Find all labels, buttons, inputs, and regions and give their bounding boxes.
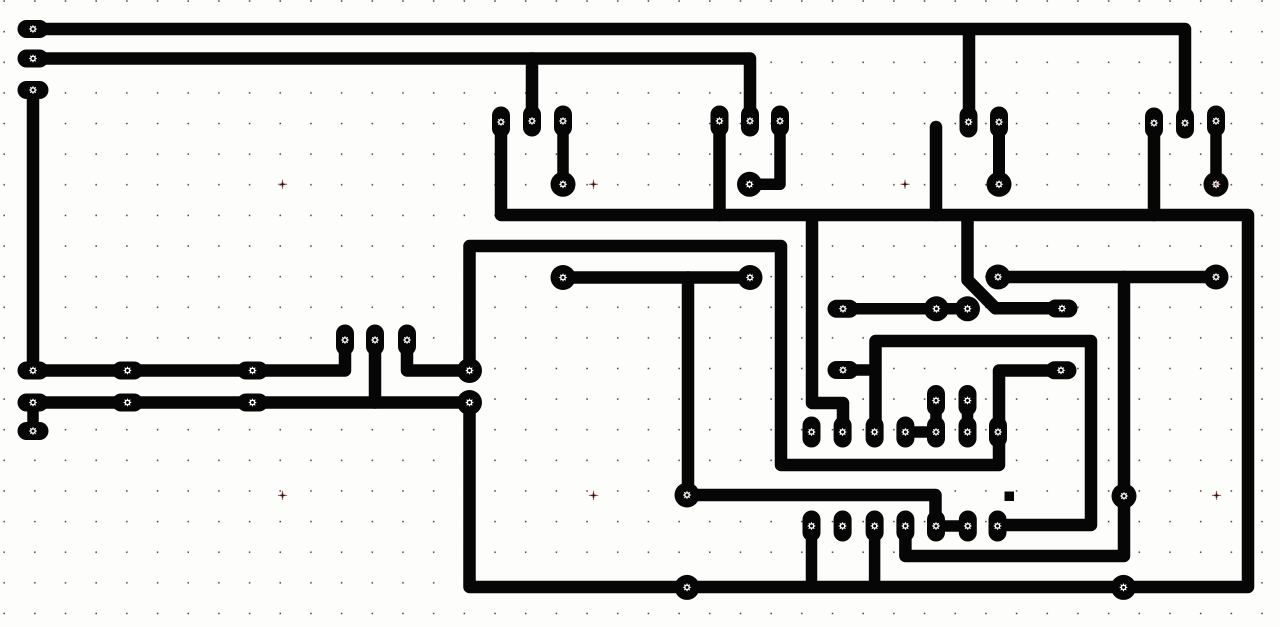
wire net5 stub from pad P15 bbox=[1148, 129, 1161, 215]
wire net6: jog from outer loop to pad P39 bbox=[812, 221, 843, 426]
pad P9 (vertical) bbox=[741, 106, 759, 137]
pad P15 (vertical) bbox=[1145, 108, 1163, 139]
pad P46b (vertical) bbox=[927, 417, 945, 448]
wire link pad P53 down bbox=[930, 401, 942, 433]
pad P32 (round) bbox=[987, 172, 1012, 197]
wire stub pad P55 to bottom rail bbox=[806, 526, 818, 587]
fiducial cross F6 bbox=[901, 491, 910, 500]
wire net5: big outer loop pad P29 to pad P6 bbox=[470, 128, 1249, 587]
pad P29 (round) bbox=[457, 390, 482, 415]
pad P25 (vertical) bbox=[398, 325, 416, 356]
pad P37 (round) bbox=[986, 265, 1011, 290]
pad P49 (vertical) bbox=[989, 511, 1007, 542]
wire net9 drop through pad P51 to pad P46 bbox=[905, 277, 1124, 556]
pad P60 (round) bbox=[675, 575, 700, 600]
pad P39 (vertical) bbox=[834, 417, 852, 448]
wire net10: pads P40-P41-P42 link bbox=[843, 303, 968, 315]
pad P22 (horizontal) bbox=[237, 394, 268, 412]
pad P56 (vertical) bbox=[834, 511, 852, 542]
wire net1 drop to pad P13 bbox=[963, 35, 976, 115]
pad P5 (vertical) bbox=[554, 106, 572, 137]
wire row B stub to pad P24 bbox=[369, 347, 382, 403]
wire link pad P45-P46 bbox=[905, 426, 936, 438]
pad P44 (vertical) bbox=[989, 417, 1007, 448]
fiducial cross F4 bbox=[278, 491, 287, 500]
pad P30 (round) bbox=[551, 172, 576, 197]
wire link pad P54 down bbox=[962, 401, 974, 433]
pad P52 (horizontal) bbox=[828, 361, 859, 379]
wire stub pad P21 to pad P26 bbox=[27, 403, 39, 432]
wire net11 stub to pad P52 bbox=[843, 364, 876, 376]
pad P8 (vertical) bbox=[711, 106, 729, 137]
pad P55 (vertical) bbox=[803, 511, 821, 542]
fiducial cross F7 bbox=[1212, 491, 1221, 500]
wire link pad P46-P48 bbox=[936, 520, 968, 532]
pad P13b (vertical) bbox=[990, 107, 1008, 138]
pad P43 (vertical) bbox=[866, 417, 884, 448]
pad P40 (horizontal) bbox=[828, 300, 859, 318]
pad P36 (round) bbox=[738, 265, 763, 290]
wire net11: inner frame pad P43 to pad P49 bbox=[876, 341, 1092, 525]
marker square M1 bbox=[1005, 492, 1015, 502]
fiducial cross F3 bbox=[900, 180, 909, 189]
pad P14 (vertical) bbox=[1176, 108, 1194, 139]
pad P38 (round) bbox=[1204, 265, 1229, 290]
pad P20 (horizontal) bbox=[18, 394, 49, 412]
fiducial cross F2 bbox=[589, 180, 598, 189]
wire pad P13 to pad P32 link bbox=[993, 128, 1005, 184]
pad P57 (vertical) bbox=[866, 511, 884, 542]
pad P17 (horizontal) bbox=[18, 362, 49, 380]
pad P7 (vertical) bbox=[523, 106, 541, 137]
pad P24 (vertical) bbox=[366, 325, 384, 356]
pad P31 (round) bbox=[737, 172, 762, 197]
pad P54 (vertical) bbox=[959, 385, 977, 416]
pad P23 (vertical) bbox=[336, 325, 354, 356]
pad P1 (horizontal) bbox=[18, 20, 49, 38]
pad P21 (horizontal) bbox=[112, 394, 143, 412]
fiducial cross F8 over pad P34 bbox=[1212, 180, 1220, 188]
pad P47 (vertical) bbox=[927, 511, 945, 542]
wire row B: pads P20-P22 to pad P27 bbox=[33, 396, 462, 409]
wire net8: pad P50 right and down to pad P47 bbox=[688, 495, 936, 519]
fiducial cross F1 bbox=[278, 180, 287, 189]
pad P58 (vertical) bbox=[803, 417, 821, 448]
pad P54b (vertical) bbox=[959, 417, 977, 448]
pad P19 (horizontal) bbox=[237, 362, 268, 380]
pad P26 (horizontal) bbox=[18, 422, 49, 440]
pad P50 (round) bbox=[675, 483, 700, 508]
wire pad P16 to pad P34 link bbox=[1210, 127, 1222, 184]
pad P2 (horizontal) bbox=[18, 50, 49, 68]
wire net8: pad P35 to pad P36 bbox=[563, 271, 750, 284]
pad P51 (round) bbox=[1112, 484, 1137, 509]
pad P45 (vertical) bbox=[896, 417, 914, 448]
wire net5 stub from pad P12 bbox=[930, 127, 943, 215]
pad P53 (vertical) bbox=[927, 385, 945, 416]
wire pad P5 to pad P30 link bbox=[557, 127, 569, 184]
pad P3 (horizontal) bbox=[18, 81, 49, 99]
wire net2: second rail from pad P2 to pad P9 bbox=[33, 59, 750, 115]
pad P10 (vertical) bbox=[771, 106, 789, 137]
pad P42 (round) bbox=[955, 296, 980, 321]
wire net4: pad P28 up around through pad P44 to pad P62 bbox=[470, 246, 1049, 465]
pad P34 (round) bbox=[1204, 172, 1229, 197]
pad P35 (round) bbox=[551, 265, 576, 290]
pad P16 (vertical) bbox=[1207, 106, 1225, 137]
pad P13 (vertical) bbox=[960, 107, 978, 138]
pad P62 (horizontal) bbox=[1046, 361, 1077, 379]
pad P46 (vertical) bbox=[896, 511, 914, 542]
wire stub pad P57 to bottom rail bbox=[869, 526, 881, 587]
wire pad P10 elbow to pad P31 bbox=[756, 127, 780, 184]
wire net8 drop to pad P50 bbox=[682, 278, 695, 496]
pad P41 (round) bbox=[924, 296, 949, 321]
pad P61 (round) bbox=[1111, 575, 1136, 600]
pad P48 (vertical) bbox=[959, 511, 977, 542]
wire pad P25 elbow to pad P28 bbox=[407, 347, 462, 371]
fiducial cross F5 bbox=[589, 491, 598, 500]
wire row A: pads P17-P19 to pad P23 bbox=[33, 347, 345, 371]
pad P28 (round) bbox=[457, 358, 482, 383]
pad P6 (vertical) bbox=[492, 107, 510, 138]
pad P18 (horizontal) bbox=[112, 362, 143, 380]
wire net2 stub to pad P7 bbox=[526, 59, 539, 115]
wire net1: top rail from pad P1 to pad P14 bbox=[33, 29, 1185, 115]
wire net7: bend and diagonal to pad P33 bbox=[968, 221, 1063, 308]
wire net9: pad P37 to pad P38 bbox=[998, 271, 1216, 284]
pad P33 (horizontal) bbox=[1047, 300, 1078, 318]
wire net5 stub from pad P8 bbox=[713, 127, 726, 215]
wire net3: left column from pad P3 down to pad P17 bbox=[27, 90, 40, 371]
